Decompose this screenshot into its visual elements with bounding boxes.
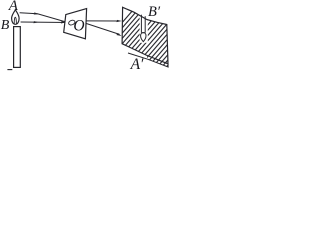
svg-text:A: A — [8, 0, 19, 14]
svg-text:O: O — [73, 18, 84, 35]
svg-text:B: B — [1, 18, 10, 33]
svg-text:A′: A′ — [130, 56, 144, 71]
svg-text:B′: B′ — [148, 4, 161, 20]
